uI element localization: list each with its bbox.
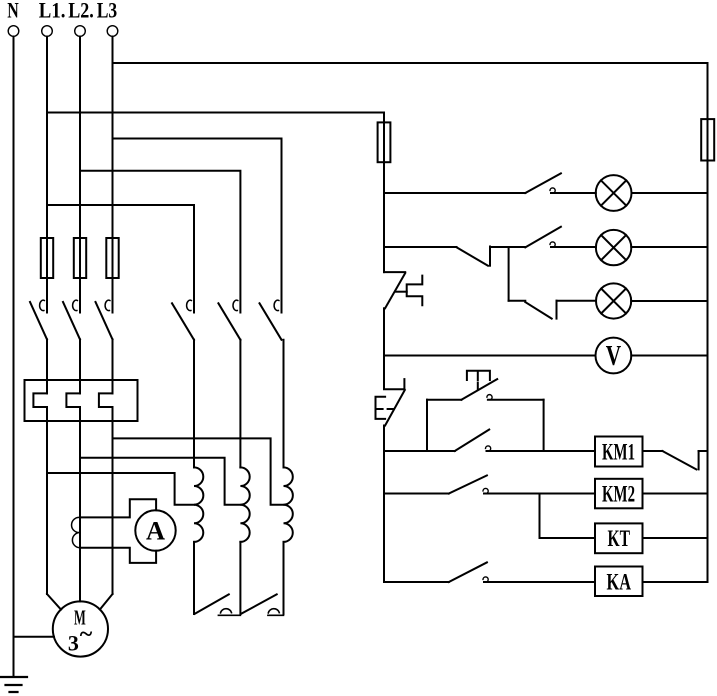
lamp HL3 <box>596 283 631 318</box>
row1 wire right <box>632 192 708 194</box>
contactor KM contact 2 blade <box>218 303 240 340</box>
autotransformer winding T3 <box>284 467 293 541</box>
motor lead right diagonal <box>100 594 113 610</box>
ammeter top wire <box>80 499 156 517</box>
KM2 interlock NC blade <box>662 451 696 469</box>
autotransformer winding T1 lower wire <box>193 542 195 614</box>
contactor KM contact 1 blade <box>172 303 194 340</box>
contactor KM contact 1 jaw <box>187 300 192 310</box>
FR trip dash link <box>396 291 407 293</box>
star contact 1 jaw and foot <box>218 609 240 616</box>
star contact 1 blade <box>195 594 229 614</box>
contactor KM contact 3 blade <box>260 303 282 340</box>
contactor KM contact 3 jaw <box>274 300 279 310</box>
svg-text:~: ~ <box>80 622 93 648</box>
fuse FU2 <box>74 238 86 278</box>
contactor coil KM2 <box>595 479 643 509</box>
fuse FU5 control right <box>701 119 714 160</box>
motor lead left diagonal <box>47 594 61 610</box>
FR trip contact blade <box>385 273 405 308</box>
KM1 aux contact jaw <box>486 446 491 451</box>
row2 wire to lamp <box>551 246 596 248</box>
timer coil KT <box>595 523 643 553</box>
control right rail <box>707 63 709 582</box>
autotransformer winding T3 lower wire <box>283 542 285 614</box>
switch QS pole 1 blade <box>30 302 47 339</box>
wire pole3 below FR <box>112 407 114 594</box>
seal-in branch top wire <box>427 399 461 401</box>
switch QS pole 3 blade <box>96 302 113 339</box>
seal-in branch right <box>543 400 545 451</box>
wire L3 branch to contact pole c <box>113 139 282 313</box>
contactor coil KM1 <box>595 437 643 467</box>
relay coil KA <box>595 567 643 597</box>
KT tap wire <box>540 494 596 539</box>
wire pole2 lower <box>79 339 81 393</box>
switch QS pole 3 jaw <box>105 300 110 310</box>
svg-text:L2.: L2. <box>68 0 94 23</box>
svg-text:L1.: L1. <box>39 0 66 23</box>
svg-text:3: 3 <box>68 631 79 656</box>
switch QS pole 2 blade <box>63 302 80 339</box>
KM2 interlock NC fixed bar <box>698 451 700 469</box>
control left rail <box>383 113 385 273</box>
stop button SB1 head <box>376 397 386 419</box>
wire pole3 lower <box>112 339 114 393</box>
wire pole1 below FR <box>46 407 48 594</box>
svg-text:N: N <box>7 0 19 23</box>
voltmeter V <box>596 338 632 374</box>
stop button SB1 link dash <box>376 408 393 410</box>
wire pole3 tap branch <box>113 438 284 504</box>
seal-in branch top wire right <box>488 399 544 401</box>
KA row wire mid <box>484 581 595 583</box>
row2 contact jaw <box>550 242 555 247</box>
motor M <box>53 601 108 656</box>
wire pole2 tap branch <box>80 458 240 505</box>
KA row wire right <box>643 581 708 583</box>
wire L3 to right rail top <box>113 63 708 120</box>
KM1 row wire left <box>384 450 455 452</box>
switch QS pole 2 jaw <box>73 300 78 310</box>
autotransformer winding T1 <box>194 467 203 541</box>
wire N vertical <box>13 37 15 678</box>
row2 wire left <box>384 246 457 248</box>
stop button SB1 fixed bar <box>403 379 405 389</box>
left rail mid <box>383 308 385 388</box>
left rail lower <box>383 426 385 583</box>
wire L3 vertical <box>112 37 114 313</box>
V row wire left <box>384 355 596 357</box>
row1 contact blade <box>525 173 561 193</box>
wire L2 branch to contact pole b <box>80 171 240 313</box>
autotransformer winding T2 lower wire <box>239 542 241 614</box>
terminal L3 <box>107 26 118 37</box>
row3 wire right <box>631 300 707 302</box>
row1 wire left <box>384 192 525 194</box>
svg-text:L3: L3 <box>97 0 118 23</box>
row2 NC blade <box>457 247 489 265</box>
terminal L1 <box>42 26 53 37</box>
KM1 row wire right <box>643 450 663 452</box>
svg-text:A: A <box>146 517 165 546</box>
row3 NC blade <box>525 302 551 319</box>
fuse FU4 control left <box>378 122 391 162</box>
row2 wire right <box>631 246 707 248</box>
KA row wire left <box>384 581 449 583</box>
svg-text:KM2: KM2 <box>602 482 635 507</box>
KA row contact blade <box>449 562 487 582</box>
thermal relay FR box <box>25 380 138 421</box>
switch QS pole 1 jaw <box>40 300 45 310</box>
row3 wire to lamp <box>557 300 597 302</box>
fuse FU3 <box>106 238 118 278</box>
wire L1 branch to contact pole a <box>47 205 194 313</box>
KM1 aux contact blade <box>455 430 489 452</box>
KM2 interlock wire to rail <box>699 450 708 452</box>
terminal L2 <box>75 26 86 37</box>
wire pole1 lower <box>46 339 48 393</box>
terminal N <box>8 26 19 37</box>
svg-text:KT: KT <box>608 526 631 551</box>
wire pole2 below FR <box>79 407 81 601</box>
start button SB2 blade <box>461 379 497 400</box>
FR heater pole1 <box>33 393 47 407</box>
KM2 row contact blade <box>449 475 487 493</box>
FR trip bracket <box>407 276 423 306</box>
KT row wire right <box>643 537 708 539</box>
V row wire right <box>631 355 707 357</box>
start button SB2 head <box>467 371 490 390</box>
row1 contact jaw <box>550 188 555 193</box>
row2 NC fixed bar <box>489 247 491 266</box>
stop button SB1 jog <box>384 388 404 390</box>
row2 wire mid <box>490 246 525 248</box>
row3 NC fixed bar <box>556 301 558 319</box>
KA row contact jaw <box>483 577 488 582</box>
svg-text:KM1: KM1 <box>602 440 635 465</box>
svg-text:KA: KA <box>607 570 632 595</box>
star contact 2 blade <box>241 594 277 614</box>
svg-text:V: V <box>606 340 621 372</box>
wire N to motor <box>14 636 55 638</box>
lamp HL1 <box>596 175 632 211</box>
wire L1 to control left rail <box>47 113 384 124</box>
lamp HL2 <box>596 230 631 265</box>
KM1 row wire mid <box>487 450 596 452</box>
ammeter A <box>135 510 175 550</box>
FR trip contact jog <box>384 271 405 273</box>
autotransformer winding T2 <box>240 467 249 541</box>
stop button SB1 blade <box>385 390 405 426</box>
star contact 2 jaw and foot <box>268 609 284 616</box>
KM2 row wire right <box>643 493 708 495</box>
wire pole1 tap branch <box>47 473 194 505</box>
node wire row2 to row3 <box>508 247 510 301</box>
KM2 row contact jaw <box>483 488 488 493</box>
start button SB2 jaw <box>487 395 492 400</box>
contactor KM contact 1 lower wire <box>193 340 195 468</box>
row2 contact blade <box>525 227 561 248</box>
ammeter bottom wire <box>80 548 156 563</box>
contactor KM contact 2 lower wire <box>239 340 241 468</box>
row1 wire to lamp <box>551 192 596 194</box>
seal-in branch left <box>426 400 428 451</box>
wire L1 vertical <box>46 37 48 313</box>
KM2 row wire mid <box>484 493 595 495</box>
fuse FU1 <box>41 238 53 278</box>
CT bumps on pole2 <box>72 517 80 547</box>
KM2 row wire left <box>384 493 449 495</box>
FR heater pole2 <box>66 393 80 407</box>
wire L2 vertical <box>79 37 81 313</box>
contactor KM contact 2 jaw <box>233 300 238 310</box>
FR heater pole3 <box>99 393 113 407</box>
ground <box>0 677 27 692</box>
contactor KM contact 3 lower wire <box>283 340 285 468</box>
row3 wire left <box>509 300 526 302</box>
